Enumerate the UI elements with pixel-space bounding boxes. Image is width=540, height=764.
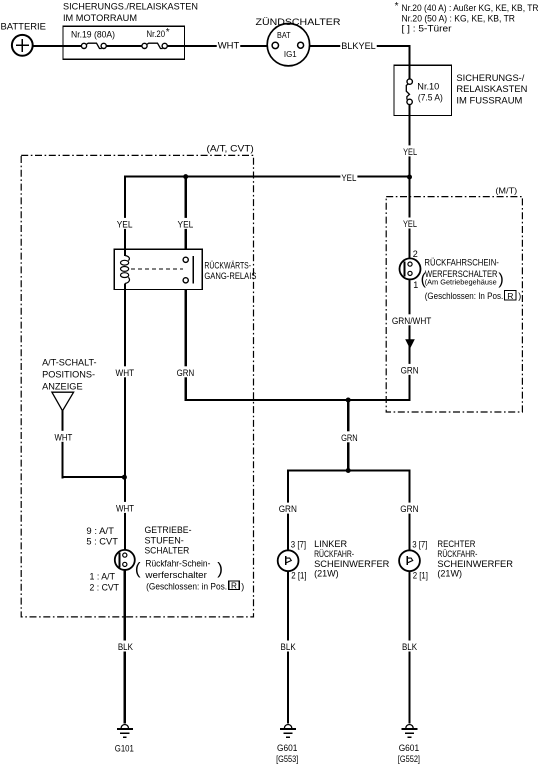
svg-text:(M/T): (M/T) <box>495 185 517 195</box>
svg-text:2 : CVT: 2 : CVT <box>90 582 120 592</box>
svg-text:): ) <box>498 271 503 288</box>
svg-text:Rückfahr-Schein-: Rückfahr-Schein- <box>145 559 210 569</box>
svg-text:STUFEN-: STUFEN- <box>145 536 184 546</box>
svg-text:RECHTER: RECHTER <box>437 539 475 549</box>
svg-text:YEL: YEL <box>403 147 417 157</box>
svg-text:2 [1]: 2 [1] <box>413 570 428 580</box>
svg-text:Nr.20 (50 A) : KG, KE, KB, TR: Nr.20 (50 A) : KG, KE, KB, TR <box>402 13 516 23</box>
svg-text:SICHERUNGS./RELAISKASTEN: SICHERUNGS./RELAISKASTEN <box>63 2 198 12</box>
svg-text:RÜCKWÄRTS-: RÜCKWÄRTS- <box>204 261 251 271</box>
svg-text:BLK: BLK <box>281 642 297 652</box>
svg-text:[ ] : 5-Türer: [ ] : 5-Türer <box>402 23 452 33</box>
svg-text:BLK: BLK <box>118 642 134 652</box>
svg-text:*: * <box>166 27 170 38</box>
svg-text:Nr.20: Nr.20 <box>147 29 166 39</box>
svg-text:Nr.20 (40 A) : Außer KG, KE, K: Nr.20 (40 A) : Außer KG, KE, KB, TR <box>402 3 539 13</box>
svg-text:G601: G601 <box>277 743 297 753</box>
svg-text:Nr.10: Nr.10 <box>417 82 439 92</box>
svg-text:3 [7]: 3 [7] <box>291 539 306 549</box>
svg-text:IM MOTORRAUM: IM MOTORRAUM <box>63 13 137 23</box>
svg-text:YEL: YEL <box>178 219 194 229</box>
svg-text:LINKER: LINKER <box>314 539 347 549</box>
svg-text:GETRIEBE-: GETRIEBE- <box>145 525 192 535</box>
svg-text:Nr.19 (80A): Nr.19 (80A) <box>71 30 115 40</box>
svg-text:BAT: BAT <box>277 30 291 40</box>
svg-text:GRN: GRN <box>341 433 358 443</box>
svg-text:(Geschlossen: In Pos.: (Geschlossen: In Pos. <box>425 291 504 301</box>
svg-text:BLKYEL: BLKYEL <box>341 41 376 51</box>
svg-text:RÜCKFAHRSCHEIN-: RÜCKFAHRSCHEIN- <box>424 257 499 267</box>
svg-text:GRN: GRN <box>401 365 419 375</box>
svg-text:[G553]: [G553] <box>276 754 298 764</box>
svg-text:RÜCKFAHR-: RÜCKFAHR- <box>437 549 477 559</box>
svg-text:5 : CVT: 5 : CVT <box>86 536 118 546</box>
svg-text:ANZEIGE: ANZEIGE <box>42 381 83 391</box>
svg-text:BATTERIE: BATTERIE <box>1 22 47 32</box>
svg-text:GRN: GRN <box>400 504 418 514</box>
svg-text:SCHALTER: SCHALTER <box>145 546 190 556</box>
svg-text:YEL: YEL <box>117 219 133 229</box>
svg-text:RÜCKFAHR-: RÜCKFAHR- <box>314 549 354 559</box>
svg-text:G101: G101 <box>115 743 134 753</box>
svg-text:A/T-SCHALT-: A/T-SCHALT- <box>42 358 97 368</box>
svg-text:1 : A/T: 1 : A/T <box>90 572 116 582</box>
svg-text:IM FUSSRAUM: IM FUSSRAUM <box>456 95 522 105</box>
svg-text:WHT: WHT <box>116 368 135 378</box>
svg-text:R: R <box>231 582 237 591</box>
svg-text:(7.5 A): (7.5 A) <box>418 93 443 103</box>
svg-text:YEL: YEL <box>403 219 417 229</box>
svg-text:GRN/WHT: GRN/WHT <box>392 316 432 326</box>
svg-text:WHT: WHT <box>218 40 240 50</box>
svg-text:POSITIONS-: POSITIONS- <box>42 370 95 380</box>
svg-text:ZÜNDSCHALTER: ZÜNDSCHALTER <box>256 17 341 27</box>
svg-text:R: R <box>507 291 513 301</box>
svg-text:): ) <box>518 291 521 301</box>
svg-text:WHT: WHT <box>55 432 73 442</box>
svg-text:GRN: GRN <box>177 368 195 378</box>
svg-text:2 [1]: 2 [1] <box>291 570 306 580</box>
svg-text:IG1: IG1 <box>284 49 297 59</box>
svg-text:[G552]: [G552] <box>398 754 420 764</box>
svg-text:(A/T, CVT): (A/T, CVT) <box>207 144 254 154</box>
svg-text:*: * <box>395 1 399 12</box>
svg-text:G601: G601 <box>399 743 419 753</box>
svg-text:1: 1 <box>413 280 418 290</box>
svg-text:(: ( <box>421 271 427 288</box>
svg-text:): ) <box>241 582 244 592</box>
svg-text:(Am Getriebegehäuse: (Am Getriebegehäuse <box>425 278 497 287</box>
svg-text:): ) <box>217 559 223 578</box>
svg-text:GRN: GRN <box>279 504 297 514</box>
svg-text:BLK: BLK <box>402 642 418 652</box>
svg-text:2: 2 <box>413 249 418 259</box>
svg-text:(: ( <box>135 559 141 578</box>
svg-text:YEL: YEL <box>341 173 356 183</box>
svg-text:SICHERUNGS-/: SICHERUNGS-/ <box>456 73 524 83</box>
svg-text:GANG-RELAIS: GANG-RELAIS <box>204 271 256 281</box>
svg-text:9 : A/T: 9 : A/T <box>86 526 114 536</box>
svg-text:WHT: WHT <box>116 503 134 513</box>
svg-text:3 [7]: 3 [7] <box>412 539 427 549</box>
svg-text:(Geschlossen: in Pos.: (Geschlossen: in Pos. <box>146 582 227 592</box>
svg-text:RELAISKASTEN: RELAISKASTEN <box>456 84 527 94</box>
svg-text:(21W): (21W) <box>314 568 339 578</box>
svg-text:(21W): (21W) <box>437 568 462 578</box>
svg-text:werferschalter: werferschalter <box>144 570 207 580</box>
